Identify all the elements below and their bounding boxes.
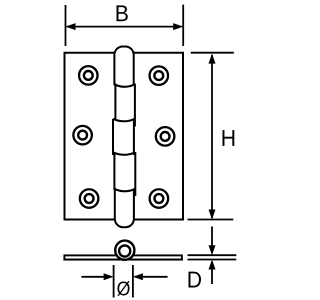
arrowhead Ø left xyxy=(104,273,114,280)
dimension H extension line top xyxy=(191,52,234,54)
screw hole mid-left xyxy=(73,126,92,145)
screw hole top-left xyxy=(79,66,98,85)
dimension Ø left arrow line xyxy=(81,276,111,278)
arrowhead Ø right xyxy=(133,273,143,280)
label D xyxy=(188,272,201,288)
arrowhead B right xyxy=(173,23,183,30)
arrowhead D up xyxy=(209,260,216,270)
arrowhead H bottom xyxy=(209,210,216,220)
side view bottom surface line xyxy=(63,259,182,261)
label B xyxy=(117,5,128,21)
knuckle K4 xyxy=(114,152,135,196)
dimension H line xyxy=(211,55,213,218)
knuckle K5 (bottom, with rounded cap) xyxy=(115,188,134,227)
label H xyxy=(222,130,234,146)
dimension B extension line left xyxy=(65,5,67,46)
screw hole mid-right xyxy=(156,127,175,146)
knuckle K1 (top, with rounded cap) xyxy=(114,47,133,86)
knuckle junction J2 xyxy=(113,119,135,122)
screw hole top-right xyxy=(150,66,169,85)
arrowhead D down xyxy=(209,245,216,255)
dimension D lower arrow line xyxy=(211,262,213,284)
knuckle junction J1 xyxy=(114,84,134,87)
dimension D extension line bottom xyxy=(188,259,237,261)
arrowhead B left xyxy=(66,23,76,30)
dimension Ø right arrow line xyxy=(136,276,168,278)
label Oslash xyxy=(117,281,129,296)
screw hole bottom-right xyxy=(150,189,169,208)
knuckle K2 xyxy=(115,84,134,127)
dimension B extension line right xyxy=(182,5,184,46)
hinge leaf outline (front view) xyxy=(65,53,184,220)
knuckle junction J4 xyxy=(114,189,135,192)
dimension H extension line bottom xyxy=(188,219,234,221)
screw hole bottom-left xyxy=(80,189,99,208)
side view knuckle outer circle xyxy=(115,241,134,260)
side view pin inner circle xyxy=(119,245,130,256)
knuckle K3 xyxy=(113,119,134,155)
dimension D upper arrow line xyxy=(211,227,213,254)
dimension D extension line top xyxy=(188,254,237,256)
side view leaf bar xyxy=(64,255,181,259)
arrowhead H top xyxy=(209,54,216,64)
knuckle junction J3 xyxy=(113,152,135,155)
dimension Ø extension line right xyxy=(132,265,134,298)
dimension B line xyxy=(67,26,182,28)
dimension Ø extension line left xyxy=(113,265,115,298)
